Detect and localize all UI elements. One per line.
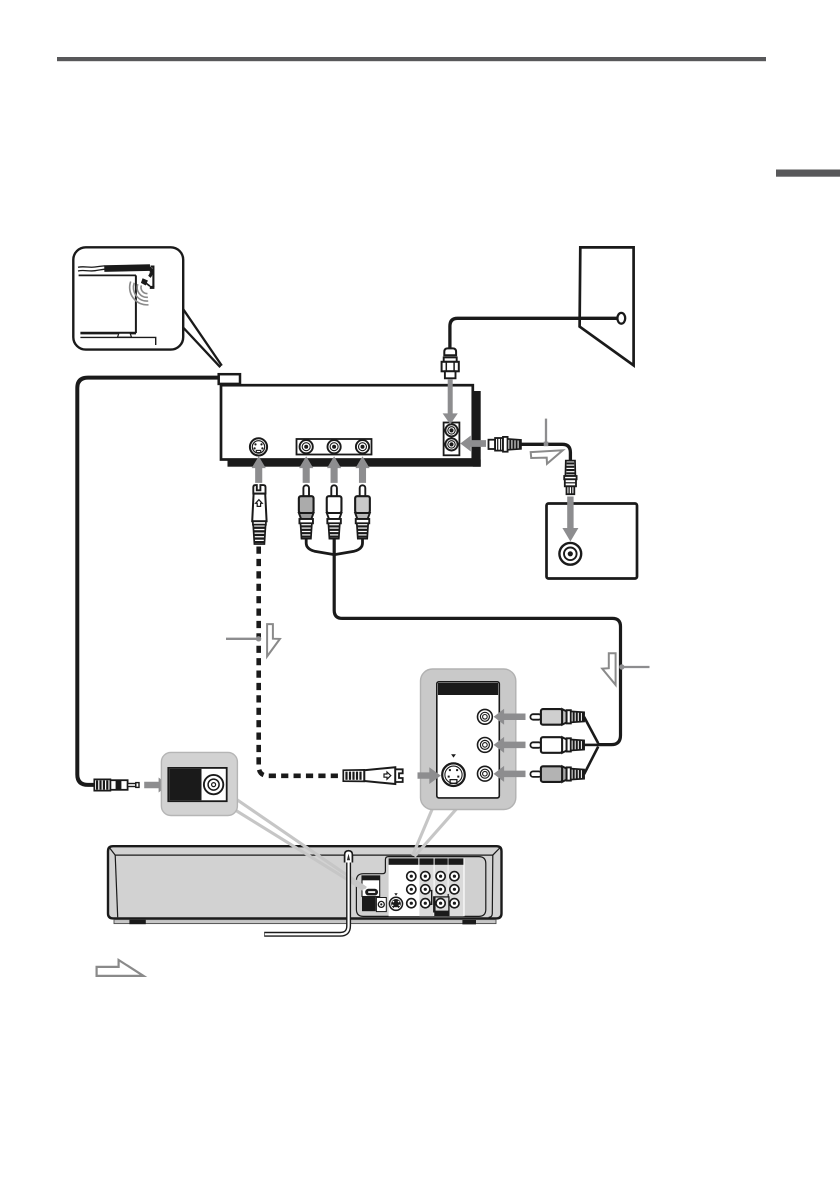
aerial cable hook over VCR top [345,851,353,863]
TV (bottom rear view) [221,385,473,459]
wall aerial socket box [547,504,638,579]
close-up RCA jack video [478,709,493,724]
TV RCA jack 3 [356,440,369,453]
close-up label bar [438,683,498,695]
cable from RCA plug 1 to junction [306,539,334,555]
inset: TV bottom [80,332,136,335]
arrow up into TV RCA jack 3 [355,456,369,483]
RCA plug 3 (red, vertical) [360,485,366,498]
TV RCA jack 2 [328,440,341,453]
arrow up into TV S-video jack [252,456,266,483]
TV RCA jack 1 [300,440,313,453]
RCA plug white (pointing left) [530,742,541,748]
S-video plug body [252,494,266,522]
S-video plug strain relief [253,525,265,544]
VCR left black port [362,897,376,912]
VCR recessed connector area (stepped) [356,857,485,917]
S-video cable (dashed) [259,547,344,776]
TV drop shadow [473,391,481,467]
audio cable mini plug [94,779,110,790]
arrow right into S-video input [418,767,441,784]
S-video plug (vertical) top with notch [253,485,265,494]
aerial cable from TV to wall box [521,444,570,461]
cables from plugs to junction [584,717,598,743]
close-up RCA jack audio L [478,738,493,753]
arrow down into TV aerial input [443,379,458,424]
RF adaptor box [161,752,237,815]
aerial cable wall to TV [450,318,618,350]
VCR RCA jacks grid [407,872,459,908]
VCR S-video jack [389,897,404,912]
VCR foot right [462,920,476,924]
RCA plug 2 (white, vertical) [331,485,337,498]
RF adaptor label window [169,769,201,801]
VCR jack link brackets [429,891,432,905]
arrow up into TV RCA jack 2 [327,456,341,483]
TV aerial in/out panel [444,423,460,456]
VCR panel label bars [389,858,419,864]
VCR attached aerial cable [264,856,348,934]
inset: plug on cable end [141,278,148,285]
arrow left into TV aerial output [460,436,486,452]
VCR top/side bevel lines [109,847,501,855]
VCR plinth [114,920,496,924]
close-up S-video jack [442,763,465,786]
open arrow bottom left [97,960,144,976]
VCR aerial-in highlight box [435,897,449,916]
leader line to S-video cable [226,638,257,640]
aerial cable plug (pointing down at wall box) [565,461,575,476]
VCR foot left [129,920,145,925]
RF adaptor coax socket [204,775,223,794]
VCR jack panel [389,858,465,916]
VCR RF ports window [362,876,380,897]
TV aerial lead stub box [219,374,240,384]
leader line to aerial cable [545,419,547,442]
TV aerial jack top [445,424,457,436]
S-video plug collar [253,521,266,524]
dashed S-video plug (pointing right) [343,770,364,782]
wall with aerial socket [580,247,634,365]
arrow right into RF adaptor [144,778,168,793]
inset: aerial socket on TV [150,286,155,289]
TV S-video jack [250,438,267,455]
chapter tab bar right edge [776,170,840,177]
inset: cable bend down to plug [147,268,151,277]
arrow up into TV RCA jack 1 [299,456,313,483]
RCA plug red (pointing left) [530,771,541,777]
bubble tail [183,309,222,367]
close-up RCA jack audio R [478,766,493,781]
inset: twin wires [78,266,105,271]
TV aerial jack bottom [445,438,457,450]
aerial plug (F-type, pointing down at TV) [444,348,456,355]
leader line to A/V cable [623,666,650,668]
arrow down into wall aerial box [562,497,578,542]
wall box coax socket [559,543,581,565]
inset: TV corner bracket [151,267,154,288]
VCR RF out slot [365,889,378,896]
cable from RCA plug 3 to junction [335,539,363,555]
open arrow beside S-video cable [267,624,280,656]
VCR input close-up panel [421,669,516,810]
RCA plug yellow (pointing left) [530,714,541,720]
arrow left into audio L jack [494,737,526,753]
inset: TV stand foot [118,333,132,337]
callout wedge from RF adaptor to VCR [235,798,367,888]
inset: TV side edge [135,275,137,333]
callout wedge from jack close-up to VCR [413,806,434,856]
long cable from TV lead box to RF adaptor [77,378,218,785]
TV audio/video RCA panel [297,439,372,455]
close-up marker triangle [451,754,456,757]
callout bubble (close-up of aerial plug into TV) [73,247,183,349]
VCR body (rear view) [108,846,502,918]
open arrow beside A/V cable [602,653,615,685]
arrow left into video jack [494,709,526,725]
aerial cable plug at TV output (pointing left) [489,440,496,449]
open arrow beside aerial cable [531,450,563,464]
inset: table edge [80,337,155,345]
RCA plug 1 (yellow, vertical) [303,485,309,498]
inset: thick cable bar [104,268,150,269]
combined A/V cable down, right, down to VCR callout [334,539,620,745]
VCR small jack box [376,898,386,912]
arrow left into audio R jack [494,766,526,782]
header rule [57,57,766,61]
aerial wall socket [617,313,625,324]
inset: TV top edge [79,274,136,276]
inset: motion arcs [141,285,147,293]
VCR panel marker triangle [394,893,397,896]
